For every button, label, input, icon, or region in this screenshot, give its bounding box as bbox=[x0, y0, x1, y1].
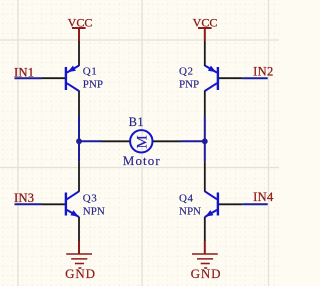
svg-text:IN4: IN4 bbox=[253, 190, 274, 204]
transistor Q1 PNP: body bbox=[66, 66, 79, 92]
svg-text:NPN: NPN bbox=[179, 205, 201, 217]
pin 1 base bbox=[219, 203, 243, 205]
pin 1 base bbox=[42, 203, 66, 205]
wire Q1 collector to node A bbox=[78, 116, 80, 141]
svg-text:M: M bbox=[135, 135, 151, 148]
pin 2 emitter bbox=[78, 217, 80, 241]
pin 3 collector bbox=[78, 91, 80, 117]
svg-text:VCC: VCC bbox=[68, 15, 93, 29]
ground GND (right) bbox=[192, 241, 218, 268]
motor B1: body circle bbox=[130, 130, 152, 152]
svg-text:NPN: NPN bbox=[83, 205, 105, 217]
pin 2 emitter bbox=[78, 41, 80, 66]
pin 3 collector bbox=[78, 162, 80, 192]
svg-text:PNP: PNP bbox=[179, 78, 199, 90]
wire motor right pin to node B bbox=[181, 140, 205, 142]
pin 3 collector bbox=[204, 162, 206, 192]
transistor Q3 NPN: pins bbox=[42, 162, 80, 241]
wire IN1 bbox=[15, 77, 42, 79]
transistor Q2 PNP: body bbox=[205, 66, 218, 92]
wire node A to motor left pin bbox=[79, 140, 102, 142]
svg-text:IN3: IN3 bbox=[14, 191, 34, 205]
svg-text:VCC: VCC bbox=[193, 15, 218, 29]
motor B1: pins bbox=[102, 140, 181, 142]
wire Q2 collector to node B bbox=[204, 116, 206, 141]
svg-text:GND: GND bbox=[65, 266, 96, 281]
wire IN3 bbox=[15, 203, 42, 205]
svg-text:GND: GND bbox=[191, 266, 222, 281]
svg-text:PNP: PNP bbox=[83, 78, 103, 90]
wire node A to Q3 collector bbox=[78, 141, 80, 161]
junction node A bbox=[76, 138, 82, 144]
junction node B bbox=[202, 138, 208, 144]
svg-text:Motor: Motor bbox=[123, 153, 161, 168]
pin 2 emitter bbox=[204, 41, 206, 66]
power port VCC (left) bbox=[72, 28, 86, 41]
pin 2 emitter bbox=[204, 217, 206, 241]
svg-text:Q3: Q3 bbox=[83, 192, 97, 204]
pin 1 (left) bbox=[102, 140, 131, 142]
svg-text:IN2: IN2 bbox=[253, 64, 273, 78]
pin 2 (right) bbox=[152, 140, 180, 142]
pin 1 base bbox=[219, 77, 243, 79]
transistor Q2 PNP (mirrored): pins bbox=[205, 41, 243, 116]
svg-text:B1: B1 bbox=[129, 115, 145, 129]
wire IN4 bbox=[242, 203, 267, 205]
transistor Q1 PNP: pins bbox=[42, 41, 80, 116]
pin 1 base bbox=[42, 77, 66, 79]
transistor Q4 NPN: body bbox=[205, 191, 218, 217]
pin 3 collector bbox=[204, 91, 206, 117]
svg-text:Q2: Q2 bbox=[179, 65, 193, 77]
power port VCC (right) bbox=[198, 28, 212, 41]
transistor Q4 NPN (mirrored): pins bbox=[205, 162, 243, 241]
transistor Q3 NPN: body bbox=[66, 191, 79, 217]
svg-text:Q1: Q1 bbox=[83, 65, 97, 77]
wire IN2 bbox=[242, 77, 267, 79]
ground GND (left) bbox=[66, 241, 92, 268]
wire node B to Q4 collector bbox=[204, 141, 206, 161]
svg-text:Q4: Q4 bbox=[179, 192, 193, 204]
svg-text:IN1: IN1 bbox=[14, 65, 34, 79]
